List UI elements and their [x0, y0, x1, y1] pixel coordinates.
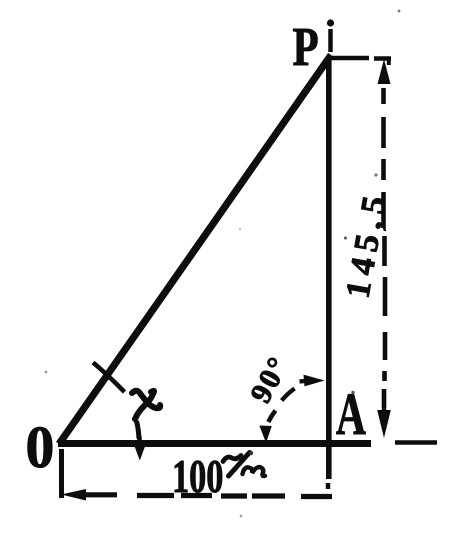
arrowhead of 90 arc pointing down at baseline — [259, 426, 272, 442]
angle arc 90 at A (dashed arc piece) — [282, 389, 295, 401]
arrowhead of 90 arc pointing right into AP — [304, 375, 325, 387]
wire baseline O-A — [58, 440, 371, 447]
svg-text:A: A — [336, 381, 366, 447]
unit mark m after 100 — [223, 453, 265, 477]
wire baseline dashed continuation right of A — [395, 440, 437, 445]
arrowhead of x angle arc (down, at baseline) — [135, 447, 145, 461]
wire vertical side A-P — [326, 56, 332, 479]
node P extension dot above apex — [327, 19, 334, 26]
angle arc x at O (dashed arc piece near baseline) — [137, 421, 139, 439]
wire top extension line from P — [331, 56, 369, 61]
svg-text:100: 100 — [172, 451, 223, 503]
label x (script angle name) — [132, 391, 160, 419]
wire hypotenuse O-P — [59, 55, 331, 444]
wire bottom dimension line dashes — [137, 496, 332, 497]
svg-text:0: 0 — [26, 414, 55, 480]
tick crossing hypotenuse (upper end of x arc) — [93, 363, 125, 393]
scan specks — [45, 10, 401, 518]
node P extension dash above apex — [328, 29, 333, 52]
svg-text:P: P — [293, 16, 319, 77]
arrowhead down (bottom of 145,5 dimension) — [377, 410, 391, 438]
arrowhead left (bottom 100m dimension) — [61, 489, 86, 501]
wire bottom dimension shaft — [84, 492, 117, 497]
wire top extension dash near arrow — [374, 56, 391, 61]
shaft of right arrowhead — [300, 381, 310, 382]
arrowhead up (top of 145,5 dimension) — [378, 59, 391, 84]
wire right dimension line dashes — [384, 88, 386, 412]
svg-text:90°: 90° — [244, 350, 296, 408]
node A extension dot below — [326, 483, 331, 489]
wire left extension line below O — [59, 449, 64, 498]
